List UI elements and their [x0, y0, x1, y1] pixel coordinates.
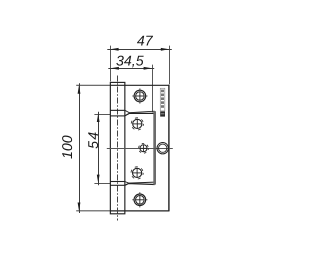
dimension 100 extension line bottom [76, 210, 110, 212]
barrel joint lower pair [110, 181, 125, 183]
dimension 100 arrow bottom [78, 203, 81, 211]
dimension 47 extension line left [110, 46, 112, 82]
screw hole S3 centre [139, 143, 149, 153]
screw hole S4 [131, 167, 143, 179]
dimension 100 arrow top [78, 85, 81, 93]
screw hole S1 top [132, 88, 147, 103]
bearing ring D [157, 143, 168, 154]
pin centerline [117, 76, 119, 221]
leaf top edge [110, 84, 169, 86]
dimension 54 arrow top [97, 114, 100, 122]
svg-text:54: 54 [86, 131, 102, 149]
dimension 47 arrow left [110, 48, 118, 51]
inner leaf right edge bar [153, 111, 156, 184]
dimension 34,5 extension line right [152, 65, 154, 113]
dimension 34,5 arrow right [144, 67, 152, 70]
dimension 100 line [79, 83, 81, 213]
dimension 54 arrow bottom [97, 175, 100, 183]
dimension 54 extension line top [94, 114, 110, 116]
dimension 34,5 arrow left [111, 67, 119, 70]
inner leaf bottom wedge [125, 182, 155, 184]
inner leaf top wedge [125, 110, 155, 112]
hinge horizontal centerline [107, 148, 173, 150]
svg-text:100: 100 [60, 135, 76, 159]
barrel outline [110, 82, 125, 213]
leaf right edge [168, 85, 170, 212]
dimension 100 extension line top [76, 84, 110, 86]
dimension 47 line [107, 49, 172, 51]
dimension 54 line [98, 112, 100, 185]
screw hole S5 bottom [132, 192, 147, 207]
svg-text:34,5: 34,5 [116, 54, 144, 70]
FUARO logo emblem [160, 111, 165, 116]
dimension 47 arrow right [161, 48, 169, 51]
dimension 47 extension line right [169, 46, 171, 85]
leaf bottom edge [110, 210, 169, 212]
dimension 54 extension line bottom [94, 183, 110, 185]
screw hole S2 [131, 118, 143, 130]
FUARO logo strip [160, 88, 165, 111]
barrel joint upper pair [110, 109, 125, 111]
svg-text:47: 47 [137, 33, 154, 49]
dimension 34,5 line [108, 68, 154, 70]
dimension 34,5 extension line left [110, 65, 112, 82]
